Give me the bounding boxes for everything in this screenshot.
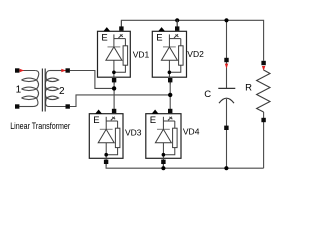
svg-text:VD3: VD3 [125, 127, 142, 137]
svg-text:VD2: VD2 [187, 49, 204, 59]
svg-text:1: 1 [16, 84, 22, 95]
svg-text:Linear Transformer: Linear Transformer [10, 121, 70, 131]
svg-text:E: E [93, 115, 99, 126]
svg-text:R: R [245, 82, 252, 93]
svg-text:E: E [150, 115, 156, 126]
svg-text:VD4: VD4 [183, 126, 200, 136]
svg-text:E: E [156, 33, 162, 44]
svg-text:C: C [204, 89, 211, 100]
svg-text:2: 2 [59, 86, 65, 97]
svg-text:E: E [101, 33, 107, 44]
svg-text:VD1: VD1 [133, 49, 150, 59]
